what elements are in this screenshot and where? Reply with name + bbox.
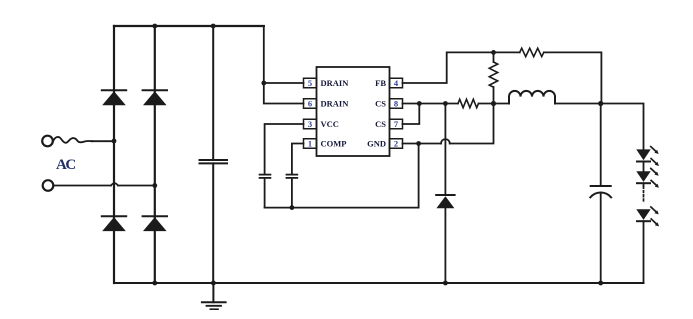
wire COMP to C3	[292, 144, 304, 175]
diode D5 freewheel	[436, 104, 454, 284]
node top rail at bridge right leg	[152, 24, 157, 29]
IC U1 body	[317, 67, 390, 156]
node bridge AC2 junction	[152, 183, 157, 188]
node bridge AC1 junction	[112, 139, 117, 144]
capacitor C3 COMP	[287, 175, 298, 208]
LED2 emission arrows	[651, 168, 659, 187]
svg-text:VCC: VCC	[321, 119, 339, 129]
inductor L1	[509, 91, 555, 104]
node output cap junction	[598, 101, 603, 106]
wire VCC to C2	[265, 124, 304, 175]
svg-text:FB: FB	[375, 78, 386, 88]
pin 8 box	[390, 99, 403, 109]
wire AC neutral to bridge	[53, 185, 154, 187]
node CS-GND-inductor junction	[491, 101, 496, 106]
wire R2 to inductor	[479, 103, 510, 105]
wire CS line from pins	[403, 103, 459, 105]
pin 5 box	[304, 78, 317, 88]
wire R1 to output node	[544, 52, 602, 103]
node bottom rail at bridge right leg	[152, 281, 157, 286]
wire hop over freewheel branch	[441, 139, 450, 143]
wire drain riser	[264, 26, 304, 104]
LED3	[636, 209, 650, 283]
node drain junction	[261, 81, 266, 86]
ground earth symbol	[202, 283, 226, 309]
diode D4 bridge bottom-right	[143, 216, 167, 231]
svg-text:DRAIN: DRAIN	[321, 99, 350, 109]
svg-text:GND: GND	[367, 139, 386, 149]
pin 4 box	[390, 78, 403, 88]
wire bridge left leg	[113, 26, 115, 283]
svg-text:AC: AC	[56, 157, 75, 173]
resistor R3 vertical divider	[489, 52, 497, 103]
wire bottom rail	[114, 282, 644, 284]
pin 3 box	[304, 119, 317, 129]
terminal AC neutral	[43, 180, 54, 191]
svg-text:DRAIN: DRAIN	[321, 78, 350, 88]
node GND wire junction	[416, 141, 421, 146]
wire pin7 riser	[403, 104, 420, 125]
node bottom rail at ground	[211, 281, 216, 286]
svg-text:4: 4	[394, 78, 399, 88]
wire bulk-cap leg upper	[212, 26, 214, 160]
capacitor C1 bulk	[200, 160, 228, 163]
wire FB to divider top	[403, 52, 520, 83]
terminal AC live	[42, 136, 53, 147]
pin 1 box	[304, 139, 317, 149]
node C4 bottom rail junction	[598, 281, 603, 286]
capacitor C4 output	[590, 104, 611, 284]
diode D2 bridge top-right	[143, 90, 167, 105]
wire top rail	[114, 25, 264, 27]
svg-text:COMP: COMP	[321, 139, 347, 149]
node FB top rail junction	[491, 50, 496, 55]
wire bulk-cap leg lower	[212, 163, 214, 283]
svg-text:CS: CS	[375, 99, 386, 109]
LED2	[636, 171, 650, 186]
pin 2 box	[390, 139, 403, 149]
resistor R2 sense	[458, 99, 478, 107]
node C3 to ground rail	[290, 205, 295, 210]
wire GND pin2 line	[403, 104, 494, 144]
fuse wavy element	[53, 137, 92, 143]
pin 7 box	[390, 119, 403, 129]
wire hop over left leg	[111, 183, 118, 185]
wire inductor to LED string	[555, 104, 644, 150]
svg-text:5: 5	[308, 78, 312, 88]
pin 6 box	[304, 99, 317, 109]
resistor R1 top feedback	[520, 48, 544, 56]
node top rail at bulk cap	[211, 24, 216, 29]
svg-text:2: 2	[394, 139, 398, 149]
svg-text:8: 8	[394, 99, 398, 109]
diode D3 bridge bottom-left	[102, 216, 126, 231]
svg-text:CS: CS	[375, 119, 386, 129]
svg-text:3: 3	[308, 119, 312, 129]
svg-text:1: 1	[308, 139, 312, 149]
wire dotted LED continuation	[643, 187, 645, 204]
node freewheel branch junction	[443, 101, 448, 106]
wire small-signal ground rail	[265, 144, 419, 208]
svg-text:7: 7	[394, 119, 399, 129]
LED3 emission arrows	[651, 207, 659, 226]
LED1	[636, 149, 650, 171]
capacitor C2 VCC	[260, 175, 271, 208]
diode D1 bridge top-left	[102, 90, 126, 105]
svg-text:6: 6	[308, 99, 312, 109]
node pin7 junction	[417, 101, 422, 106]
wire fuse to bridge	[92, 140, 114, 142]
wire bridge right leg	[154, 26, 156, 283]
LED1 emission arrows	[651, 147, 659, 166]
node D5 bottom rail junction	[443, 281, 448, 286]
